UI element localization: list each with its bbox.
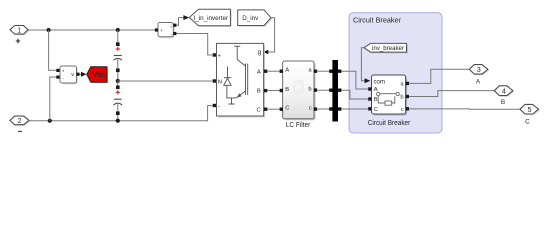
svg-text:com: com xyxy=(374,79,386,85)
from tag D_inv xyxy=(238,10,273,27)
svg-text:B: B xyxy=(501,99,505,106)
svg-text:+: + xyxy=(160,29,163,34)
wire breaker c to port 5 xyxy=(409,108,520,110)
wire voltmeter to Vdc goto xyxy=(80,73,82,75)
svg-text:+: + xyxy=(62,70,65,75)
wire phase B inverter to filter xyxy=(267,90,279,92)
svg-text:A: A xyxy=(285,68,289,74)
current measurement U_I xyxy=(155,23,177,39)
svg-text:i: i xyxy=(171,24,172,29)
inverter bridge U1 xyxy=(213,43,268,117)
svg-text:LC Filter: LC Filter xyxy=(286,122,311,129)
port 1 xyxy=(10,26,29,44)
svg-text:3: 3 xyxy=(477,67,481,74)
voltage measurement U_V xyxy=(56,66,79,84)
svg-text:b: b xyxy=(400,95,403,101)
wire breaker a to port 3 xyxy=(409,69,469,83)
node top capacitor junction xyxy=(116,28,120,32)
wire bus to breaker C xyxy=(341,108,368,110)
node junction bottom-left xyxy=(48,119,52,123)
svg-text:1: 1 xyxy=(17,28,21,35)
svg-text:inv_breaker: inv_breaker xyxy=(372,45,405,52)
svg-text:4: 4 xyxy=(502,88,506,95)
svg-text:Circuit Breaker: Circuit Breaker xyxy=(368,120,411,127)
svg-text:D_inv: D_inv xyxy=(242,15,259,22)
svg-text:+: + xyxy=(218,53,221,59)
busbar xyxy=(332,60,338,122)
wire dc plus to bridge xyxy=(176,34,212,56)
wire D_inv to gate xyxy=(268,18,275,52)
svg-text:Circuit Breaker: Circuit Breaker xyxy=(353,17,402,24)
goto tag I_in_inverter xyxy=(189,9,231,27)
svg-text:A: A xyxy=(476,78,481,85)
node bottom capacitor junction xyxy=(116,119,120,123)
svg-text:C: C xyxy=(285,106,289,112)
wire filter c to bus xyxy=(317,108,332,110)
wire phase A inverter to filter xyxy=(267,70,279,72)
wire bottom rail xyxy=(29,106,212,121)
node mid capacitor junction xyxy=(116,79,120,83)
svg-text:-: - xyxy=(218,104,220,110)
svg-text:B: B xyxy=(257,89,261,95)
svg-text:C: C xyxy=(525,118,530,125)
svg-text:B: B xyxy=(285,87,289,93)
wire filter a to bus xyxy=(317,70,332,72)
wire N rail xyxy=(118,80,212,82)
wire top rail xyxy=(28,29,155,31)
svg-text:g: g xyxy=(258,49,262,56)
wire phase C inverter to filter xyxy=(267,108,279,110)
svg-text:Vdc: Vdc xyxy=(92,72,106,79)
breaker switch icon xyxy=(377,92,400,105)
svg-text:2: 2 xyxy=(18,118,22,125)
svg-text:C: C xyxy=(257,107,261,113)
region Circuit Breaker (lavender area) xyxy=(349,13,442,133)
svg-text:N: N xyxy=(218,79,222,85)
wire bus to breaker A xyxy=(341,71,368,89)
goto tag Vdc xyxy=(87,67,109,84)
node junction top-left xyxy=(47,28,51,32)
LC filter subsystem xyxy=(280,61,318,129)
from tag inv_breaker xyxy=(364,43,408,53)
svg-text:C: C xyxy=(374,107,378,113)
port 4 xyxy=(494,86,514,106)
port 2 xyxy=(10,116,30,131)
svg-text:b: b xyxy=(308,86,311,92)
node bus taps right xyxy=(338,70,341,111)
node bus taps left xyxy=(329,70,332,111)
capacitor C1 xyxy=(114,30,123,81)
wire i signal to goto xyxy=(176,18,183,26)
circuit breaker block xyxy=(368,75,411,127)
wire inv_breaker to com xyxy=(361,48,364,81)
wire breaker b to port 4 xyxy=(409,91,494,97)
wire filter b to bus xyxy=(317,89,332,91)
port 3 xyxy=(469,65,489,86)
igbt arm icon xyxy=(224,46,248,104)
svg-text:5: 5 xyxy=(528,107,532,114)
svg-text:I_in_inverter: I_in_inverter xyxy=(194,15,229,22)
svg-text:B: B xyxy=(374,97,378,103)
svg-text:A: A xyxy=(257,69,261,75)
port 5 xyxy=(520,104,540,125)
wire branch to voltmeter minus xyxy=(50,77,58,121)
wire branch to voltmeter plus xyxy=(49,30,58,70)
wire bus to breaker B xyxy=(341,90,368,99)
svg-text:c: c xyxy=(401,107,404,113)
svg-text:c: c xyxy=(309,105,312,111)
capacitor C2 xyxy=(114,81,123,121)
svg-text:v: v xyxy=(71,72,74,78)
